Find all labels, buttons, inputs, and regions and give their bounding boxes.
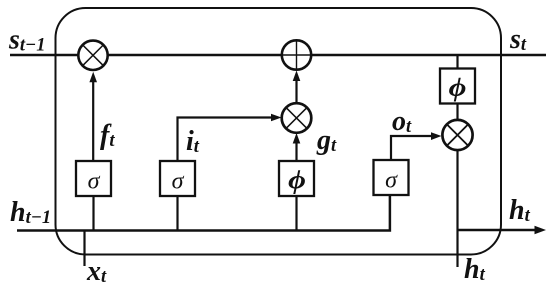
- wire: h_t output arrow to the right: [458, 229, 537, 232]
- wire: f gate arrow up into forget multiply: [92, 80, 94, 161]
- gate box: sigma (input gate): [160, 161, 195, 196]
- gate box: phi (output tanh on right): [440, 69, 475, 104]
- gate box: sigma (forget gate): [76, 161, 111, 196]
- svg-text:ϕ: ϕ: [288, 167, 306, 195]
- wire: right vertical from s line into phi box: [456, 56, 458, 69]
- wire: g gate arrow up into g multiply: [295, 142, 297, 161]
- multiply node: input x candidate: [282, 103, 312, 133]
- multiply node: forget gate (on s line): [78, 41, 107, 70]
- wire: f gate stem below box: [92, 196, 94, 231]
- svg-text:ϕ: ϕ: [449, 74, 467, 102]
- wire: x_t input stem: [83, 231, 85, 267]
- multiply node: output gate: [442, 120, 472, 150]
- wire: g gate stem below box: [295, 196, 297, 231]
- gate box: phi (candidate tanh): [279, 161, 314, 196]
- wire: o gate path up then right into output multiply: [391, 136, 433, 161]
- gate box: sigma (output gate): [374, 160, 409, 195]
- wire: g multiply arrow up into add node: [295, 80, 297, 104]
- wire: output vertical down from output multiply to bottom h_t: [456, 151, 458, 267]
- svg-text:σ: σ: [172, 169, 185, 195]
- add node: new cell state (on s line): [282, 40, 311, 69]
- svg-text:σ: σ: [385, 168, 398, 194]
- wire: phi box to output multiply: [456, 104, 458, 120]
- wire: i gate path up then right into g multiply: [178, 118, 273, 162]
- wire: cell state line s (top horizontal): [10, 54, 546, 57]
- wire: i gate stem below box: [176, 196, 178, 231]
- wire: hidden state input line h (bottom horizontal, turns up into o gate): [17, 196, 390, 231]
- svg-text:σ: σ: [88, 169, 101, 195]
- cell boundary rounded rectangle: [56, 8, 502, 255]
